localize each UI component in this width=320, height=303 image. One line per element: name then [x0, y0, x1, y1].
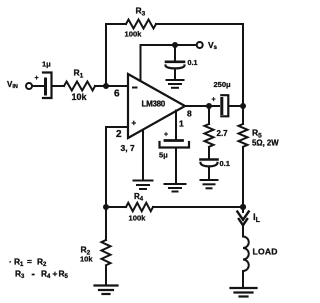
capacitor C3 250u plate: [220, 99, 223, 114]
wire supply drop to op-amp: [140, 45, 142, 81]
wire top right: [156, 23, 243, 25]
svg-text:1: 1: [179, 119, 184, 129]
capacitor C1 1u plate: [44, 79, 47, 94]
capacitor 0.1 zobel top plate: [201, 158, 218, 161]
wire: [208, 147, 210, 158]
svg-text:IL: IL: [253, 212, 261, 224]
wire: [105, 266, 107, 285]
wire: [32, 85, 44, 87]
ground 5u: [165, 184, 186, 192]
ground R2: [95, 286, 118, 295]
label minus input: [132, 87, 138, 89]
wire: [174, 69, 176, 80]
wire top left: [106, 23, 126, 25]
svg-text:LOAD: LOAD: [253, 246, 278, 256]
ground stem pins 3,7: [142, 130, 144, 180]
svg-text:R1: R1: [74, 68, 84, 80]
svg-text:10k: 10k: [80, 255, 93, 264]
node right rail output: [240, 103, 246, 109]
svg-text:R3: R3: [136, 6, 146, 18]
resistor R4: [126, 203, 153, 211]
wire: [242, 224, 244, 237]
capacitor C2 5u top plate: [165, 139, 183, 142]
node bottom left: [103, 204, 109, 210]
svg-text:2.7: 2.7: [217, 129, 229, 138]
wire 2.7 lead: [208, 106, 210, 124]
capacitor C1 1u bracket: [43, 73, 52, 99]
input terminal VIN: [26, 83, 32, 89]
svg-text:3, 7: 3, 7: [121, 143, 135, 153]
ground LOAD: [231, 288, 257, 297]
svg-text:1μ: 1μ: [42, 60, 51, 69]
resistor R5: [239, 124, 248, 147]
wire output pin 8: [185, 105, 219, 107]
svg-text:Vs: Vs: [208, 40, 218, 51]
wire Vs line: [141, 44, 197, 46]
wire left rail up: [105, 24, 107, 86]
svg-text:R4: R4: [134, 192, 144, 203]
ground pins 3,7: [134, 181, 153, 190]
wire right rail: [242, 24, 244, 106]
ground zobel: [201, 180, 218, 188]
svg-text:250μ: 250μ: [214, 80, 232, 89]
wire pin2: [106, 126, 128, 128]
svg-text:5Ω, 2W: 5Ω, 2W: [252, 139, 279, 148]
svg-text:6: 6: [114, 88, 120, 99]
svg-text:100k: 100k: [125, 30, 143, 39]
svg-text:0.1: 0.1: [188, 58, 198, 67]
resistor R1: [64, 82, 95, 91]
svg-text:100k: 100k: [129, 214, 147, 223]
capacitor 0.1 top plate: [166, 60, 184, 63]
node 6: [103, 83, 109, 89]
capacitor C2 5u cup plate: [160, 142, 190, 148]
node bottom right: [240, 204, 246, 210]
resistor R2: [102, 240, 111, 265]
node output: [206, 103, 212, 109]
wire: [229, 105, 243, 107]
current arrow IL: [242, 207, 244, 212]
wire: [242, 271, 244, 287]
svg-text:+: +: [132, 119, 137, 128]
svg-text:VIN: VIN: [7, 80, 18, 90]
node Vs: [172, 42, 178, 48]
terminal Vs: [197, 42, 203, 48]
wire bottom right: [153, 206, 243, 208]
resistor R3: [126, 20, 156, 29]
svg-text:·R1=R2: ·R1=R2: [9, 256, 47, 268]
inductor LOAD: [243, 237, 249, 272]
wire: [95, 85, 128, 87]
svg-text:5μ: 5μ: [159, 151, 168, 160]
svg-text:+: +: [212, 97, 216, 104]
svg-text:0.1: 0.1: [220, 159, 230, 168]
wire: [53, 85, 65, 87]
wire pin1: [175, 111, 177, 140]
svg-text:2: 2: [116, 129, 122, 140]
capacitor 0.1 zobel bottom plate: [201, 163, 218, 167]
svg-text:LM380: LM380: [142, 100, 166, 109]
wire pin2 rail down: [105, 127, 107, 207]
wire R5 top lead: [242, 106, 244, 124]
resistor R2 leads: [105, 207, 107, 240]
wire: [175, 149, 177, 184]
svg-text:8: 8: [187, 109, 192, 119]
resistor 2.7: [205, 124, 214, 147]
ground Vs bypass: [167, 80, 184, 88]
svg-text:R3-R4+R5: R3-R4+R5: [15, 268, 69, 280]
wire: [174, 45, 176, 61]
capacitor C3 250u bracket: [221, 95, 228, 116]
svg-text:10k: 10k: [72, 92, 88, 102]
capacitor 0.1 bottom plate: [166, 66, 185, 69]
op-amp U1 LM380: [128, 74, 185, 138]
svg-text:+: +: [164, 132, 168, 139]
wire bottom left: [106, 206, 126, 208]
wire: [208, 167, 210, 180]
svg-text:+: +: [35, 75, 39, 82]
wire R5 bottom lead: [242, 147, 244, 207]
